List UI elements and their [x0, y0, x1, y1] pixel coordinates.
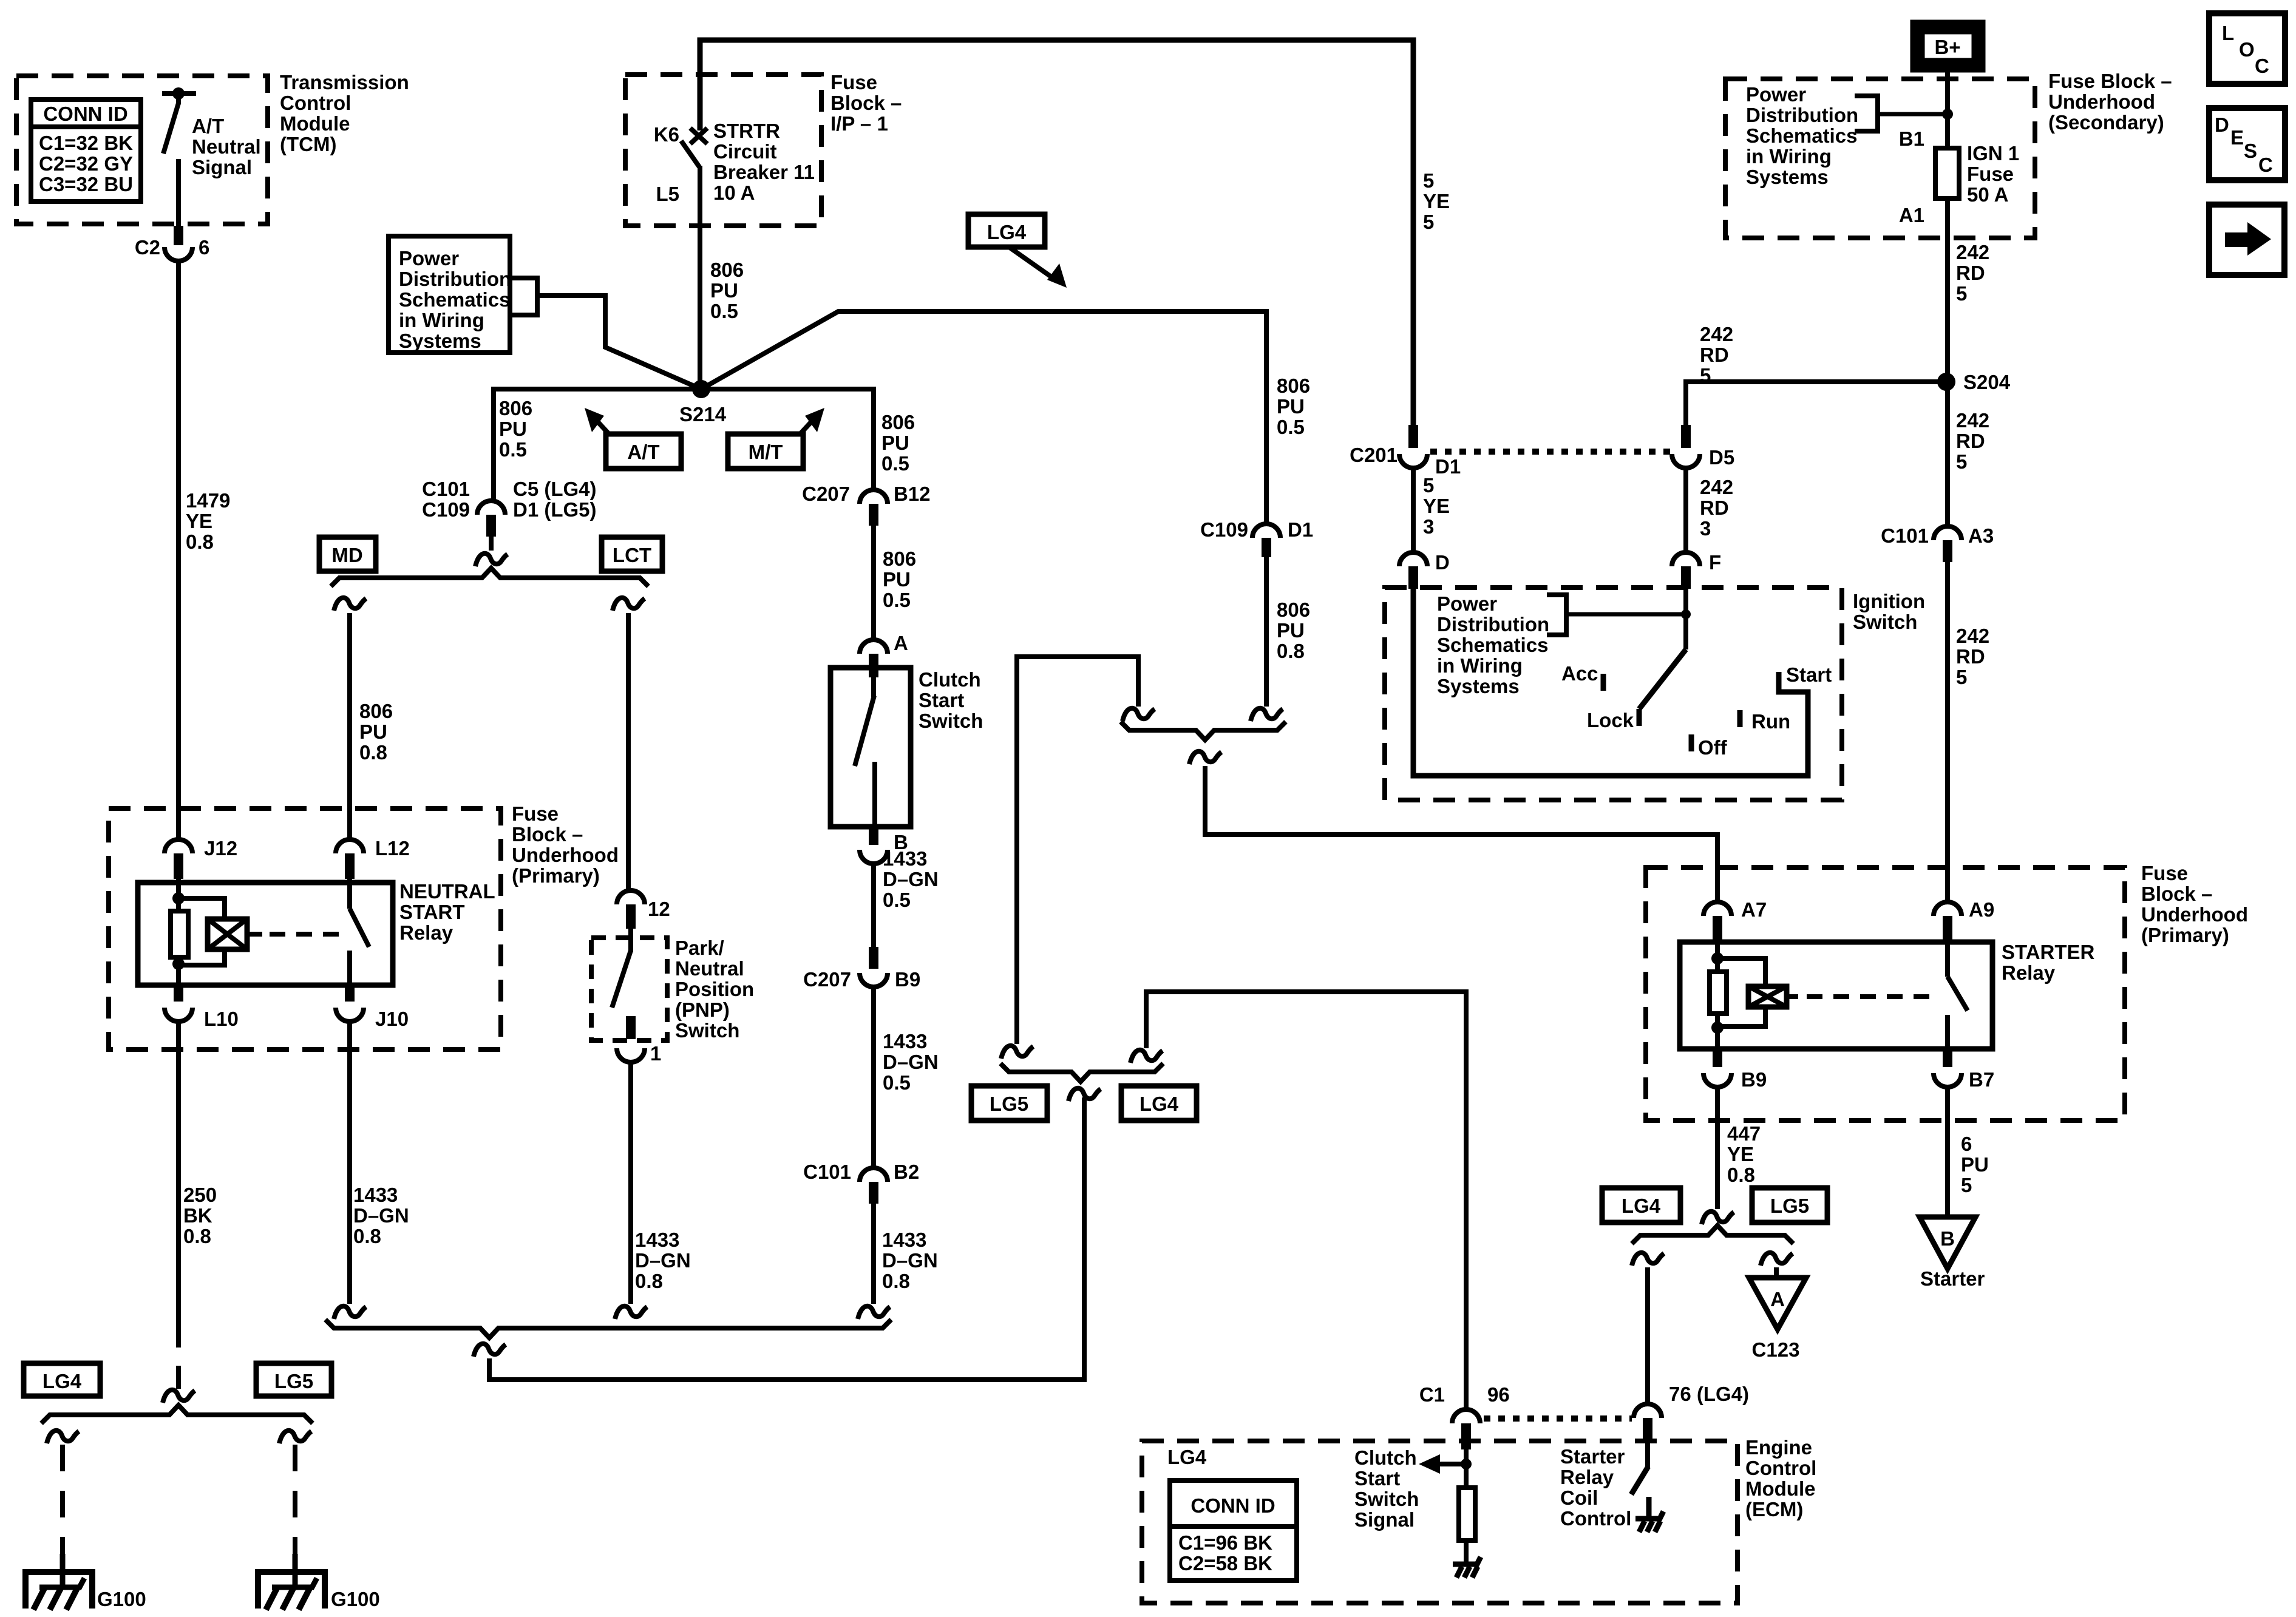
bundle brace: bottom-left grounds	[41, 1405, 313, 1423]
svg-text:5: 5	[1423, 211, 1434, 233]
svg-text:C101: C101	[803, 1161, 851, 1183]
svg-text:806: 806	[359, 700, 393, 722]
wire: S214 left branch to C101/C109	[494, 389, 701, 501]
wire: 250 BK 0.8 from L10 down	[176, 1022, 181, 1322]
svg-text:Off: Off	[1698, 736, 1728, 759]
svg-text:C207: C207	[803, 968, 851, 991]
svg-text:(TCM): (TCM)	[280, 133, 336, 155]
svg-text:A3: A3	[1968, 524, 1994, 547]
svg-text:Power: Power	[1437, 592, 1497, 615]
svg-text:Starter: Starter	[1560, 1445, 1625, 1468]
relay box: STARTER Relay	[1680, 942, 1992, 1049]
svg-text:C: C	[2255, 55, 2269, 77]
wire: C109 D1 drop to brace	[1262, 538, 1271, 557]
svg-text:5: 5	[1956, 666, 1967, 688]
box: LG5 variant tag (middle)	[971, 1086, 1047, 1120]
svg-text:Start: Start	[1354, 1467, 1400, 1490]
box: A/T variant tag	[606, 434, 681, 469]
svg-text:Position: Position	[675, 978, 754, 1000]
svg-text:6: 6	[199, 236, 209, 259]
svg-text:in Wiring: in Wiring	[1746, 145, 1832, 168]
resistor: ECM clutch signal pull	[1459, 1488, 1475, 1541]
connector C2 pin 6	[165, 247, 192, 261]
connector: starter relay pin A9	[1934, 902, 1961, 916]
svg-text:0.8: 0.8	[1727, 1164, 1755, 1186]
bundle brace: bottom collector (MD/PNP/clutch)	[325, 1320, 891, 1338]
svg-text:PU: PU	[1277, 619, 1305, 642]
svg-text:C109: C109	[422, 498, 470, 521]
svg-text:Run: Run	[1751, 710, 1790, 733]
svg-text:Power: Power	[1746, 83, 1806, 106]
wire: S214 diagonal to C109 D1 feed	[701, 311, 1266, 523]
svg-text:LG4: LG4	[1167, 1446, 1207, 1468]
svg-text:(Primary): (Primary)	[2141, 924, 2229, 946]
svg-text:3: 3	[1700, 517, 1711, 540]
svg-text:242: 242	[1956, 409, 1989, 432]
wire: 447 YE 0.8 from B9	[1715, 1087, 1720, 1209]
ignition position: Off	[1689, 734, 1694, 751]
ground G100 (right)	[293, 1554, 298, 1585]
svg-text:Schematics: Schematics	[1746, 124, 1857, 147]
svg-text:250: 250	[183, 1184, 217, 1206]
svg-text:D–GN: D–GN	[635, 1249, 691, 1272]
svg-text:806: 806	[881, 411, 915, 433]
svg-text:C207: C207	[802, 483, 850, 505]
splice S204	[1937, 373, 1955, 391]
wire: bundle output to LG5/LG4 brace	[489, 1097, 1084, 1380]
wire: 242 RD 5 from S204 to C101 A3	[1945, 382, 1950, 526]
connector: ignition switch pin D	[1399, 552, 1427, 566]
wire: 1433 D-GN 0.8 from B2 down	[871, 1204, 876, 1304]
svg-text:Control: Control	[280, 92, 351, 114]
wire: 1479 YE 0.8 from C2 to J12	[176, 261, 181, 838]
svg-text:M/T: M/T	[749, 441, 783, 463]
svg-text:D1: D1	[1288, 518, 1313, 541]
svg-text:1433: 1433	[882, 1229, 926, 1251]
svg-text:C: C	[2258, 154, 2273, 176]
svg-text:C2: C2	[135, 236, 160, 259]
svg-text:76 (LG4): 76 (LG4)	[1669, 1383, 1749, 1405]
wire: LG5 ground branch	[279, 1431, 311, 1443]
svg-text:D–GN: D–GN	[883, 868, 939, 890]
svg-text:806: 806	[499, 397, 532, 419]
box: DESC legend	[2209, 108, 2285, 180]
svg-text:Engine: Engine	[1745, 1436, 1812, 1459]
svg-text:D–GN: D–GN	[882, 1249, 938, 1272]
svg-text:YE: YE	[1423, 495, 1450, 517]
svg-text:Acc: Acc	[1561, 662, 1598, 685]
off-page connector A / C123	[1749, 1278, 1806, 1329]
arrow: LG4 tag pointer	[1009, 247, 1052, 277]
svg-text:C1=96 BK: C1=96 BK	[1178, 1531, 1272, 1554]
svg-text:LG5: LG5	[990, 1093, 1028, 1115]
dashed box: Transmission Control Module (TCM)	[16, 76, 268, 224]
connector: starter relay pin B7	[1943, 1049, 1952, 1067]
box: Clutch Start Switch	[830, 668, 911, 827]
svg-text:Systems: Systems	[1746, 166, 1829, 188]
wire: bracket to S214 splice	[537, 296, 701, 389]
svg-text:Power: Power	[399, 247, 459, 269]
svg-text:Signal: Signal	[192, 156, 252, 178]
svg-text:A/T: A/T	[627, 441, 659, 463]
svg-text:Relay: Relay	[1560, 1466, 1614, 1488]
svg-text:S: S	[2244, 140, 2257, 162]
svg-text:Start: Start	[1786, 663, 1832, 686]
wire: 1433 D-GN 0.8 from PNP pin 1 down	[628, 1062, 633, 1304]
wire: 6 PU 5 from B7 to starter	[1945, 1087, 1950, 1217]
svg-text:C2=58 BK: C2=58 BK	[1178, 1552, 1272, 1575]
svg-text:I/P – 1: I/P – 1	[830, 112, 888, 135]
svg-text:Fuse Block –: Fuse Block –	[2048, 70, 2172, 92]
box: LG4 variant tag (bottom left)	[24, 1363, 100, 1396]
svg-text:D1 (LG5): D1 (LG5)	[513, 498, 597, 521]
svg-text:Park/: Park/	[675, 937, 724, 959]
svg-text:Fuse: Fuse	[1967, 163, 2014, 185]
svg-text:J10: J10	[375, 1008, 409, 1030]
svg-text:STARTER: STARTER	[2002, 941, 2095, 963]
connector: clutch switch pin A	[860, 640, 888, 654]
svg-text:PU: PU	[883, 568, 911, 591]
svg-text:YE: YE	[1727, 1143, 1754, 1165]
svg-text:C101: C101	[1881, 524, 1929, 547]
svg-text:Block –: Block –	[512, 823, 583, 846]
bundle brace: B9 split to LG4/LG5	[1632, 1225, 1793, 1244]
box: LG4 variant tag (top)	[968, 214, 1045, 247]
svg-text:L10: L10	[204, 1008, 239, 1030]
svg-text:B1: B1	[1899, 127, 1924, 150]
svg-text:STRTR: STRTR	[713, 120, 780, 142]
svg-text:G100: G100	[97, 1588, 146, 1610]
svg-text:Signal: Signal	[1354, 1508, 1415, 1531]
connector J10	[345, 985, 355, 1002]
dotted tie: C201 to D5	[1430, 449, 1671, 455]
svg-text:0.8: 0.8	[186, 531, 214, 553]
svg-text:C2=32 GY: C2=32 GY	[39, 152, 133, 175]
svg-text:C1=32 BK: C1=32 BK	[39, 132, 133, 154]
svg-text:RD: RD	[1956, 645, 1985, 668]
svg-text:(ECM): (ECM)	[1745, 1498, 1803, 1520]
dashed box: Engine Control Module (ECM)	[1142, 1441, 1737, 1603]
svg-text:(Primary): (Primary)	[512, 864, 600, 887]
svg-text:Distribution: Distribution	[1746, 104, 1858, 126]
svg-text:Systems: Systems	[399, 330, 481, 352]
svg-text:Switch: Switch	[919, 710, 983, 732]
svg-text:Relay: Relay	[2002, 961, 2056, 984]
svg-text:D: D	[1435, 551, 1450, 574]
svg-text:L: L	[2222, 22, 2234, 44]
dashed box: Park/Neutral Position (PNP) Switch	[591, 938, 667, 1040]
wire: B+ to IGN1 fuse	[1945, 70, 1950, 148]
svg-text:Circuit: Circuit	[713, 140, 777, 163]
off-page connector B / Starter	[1920, 1217, 1975, 1269]
wire: LG4 ground branch	[47, 1431, 79, 1443]
svg-text:B9: B9	[1741, 1068, 1767, 1091]
svg-text:Transmission: Transmission	[280, 71, 409, 93]
svg-text:Start: Start	[919, 689, 964, 711]
relay contact switch (right side)	[347, 879, 352, 909]
svg-text:A1: A1	[1899, 204, 1924, 226]
svg-text:1433: 1433	[353, 1184, 398, 1206]
relay coil branch (left)	[176, 879, 181, 911]
svg-text:242: 242	[1956, 625, 1989, 647]
svg-text:242: 242	[1956, 241, 1989, 263]
svg-text:10 A: 10 A	[713, 181, 755, 204]
bracket: ignition power distribution	[1547, 595, 1566, 635]
box: Power Distribution Schematics in Wiring Systems (top left)	[389, 236, 510, 353]
wire: LG4 path up to ECM C1 horizontal	[1130, 1050, 1163, 1063]
svg-text:806: 806	[1277, 375, 1310, 397]
box: LG4 variant tag (middle)	[1121, 1086, 1197, 1120]
wire: 242 RD 5 from A3 to starter relay A9	[1945, 562, 1950, 901]
relay box: NEUTRAL START Relay	[138, 883, 393, 985]
svg-text:0.5: 0.5	[1277, 416, 1305, 438]
svg-text:LG4: LG4	[987, 221, 1027, 243]
wire: 5 YE 3 from C201 to ignition D	[1411, 468, 1416, 552]
svg-text:806: 806	[883, 547, 916, 570]
bundle brace: starter relay coil feed (A7)	[1121, 722, 1286, 740]
svg-text:1: 1	[650, 1042, 661, 1065]
svg-text:B: B	[1940, 1227, 1955, 1250]
svg-text:F: F	[1709, 551, 1721, 574]
svg-text:LG5: LG5	[274, 1370, 313, 1392]
svg-text:Coil: Coil	[1560, 1486, 1598, 1509]
splice S214	[692, 380, 710, 398]
svg-text:C1: C1	[1419, 1383, 1445, 1406]
ignition position: Run	[1737, 710, 1743, 727]
svg-text:MD: MD	[331, 544, 362, 566]
ground G100 (left)	[60, 1554, 66, 1585]
svg-text:Underhood: Underhood	[2141, 903, 2248, 926]
svg-text:C5 (LG4): C5 (LG4)	[513, 478, 597, 500]
box: forward arrow legend	[2209, 205, 2284, 275]
svg-text:(PNP): (PNP)	[675, 998, 730, 1021]
connector C207 pin B12	[860, 490, 888, 504]
dashed box: Fuse Block - Underhood (Secondary)	[1725, 79, 2035, 238]
svg-text:PU: PU	[710, 279, 738, 302]
wire: 1433 D-GN 0.5 to C101 B2	[871, 987, 876, 1168]
svg-text:0.8: 0.8	[635, 1270, 663, 1292]
wire: S214 right branch to C207 B12	[701, 389, 874, 490]
svg-text:Control: Control	[1745, 1457, 1816, 1479]
svg-text:Neutral: Neutral	[192, 135, 261, 158]
svg-text:YE: YE	[186, 510, 212, 532]
svg-text:0.8: 0.8	[1277, 640, 1305, 662]
wire: 242 RD 5 from fuse to S204	[1945, 198, 1950, 374]
svg-text:Ignition: Ignition	[1853, 590, 1925, 612]
dashed box: Ignition Switch	[1385, 588, 1842, 800]
connector C109 pin D1	[1252, 524, 1280, 538]
bracket from power distribution box	[511, 278, 537, 315]
svg-text:L5: L5	[656, 183, 679, 205]
box: LG5 variant tag (bottom left)	[256, 1363, 331, 1396]
dotted tie: C1 to 76	[1484, 1415, 1632, 1422]
svg-text:PU: PU	[881, 432, 909, 454]
connector J12	[165, 839, 192, 853]
svg-text:S204: S204	[1963, 371, 2011, 393]
svg-text:in Wiring: in Wiring	[1437, 654, 1523, 677]
svg-text:Module: Module	[1745, 1477, 1815, 1500]
svg-text:50 A: 50 A	[1967, 183, 2008, 206]
connector C201 pin D1	[1399, 454, 1427, 468]
svg-text:Fuse: Fuse	[2141, 862, 2188, 884]
arrow: clutch start switch signal	[1433, 1462, 1466, 1466]
svg-text:Relay: Relay	[399, 921, 453, 944]
svg-text:96: 96	[1487, 1383, 1510, 1406]
svg-text:Systems: Systems	[1437, 675, 1520, 697]
svg-text:6: 6	[1961, 1133, 1972, 1155]
switch blade: PNP	[628, 929, 633, 952]
svg-text:Starter: Starter	[1920, 1267, 1985, 1290]
connector L12	[336, 839, 364, 853]
svg-text:Switch: Switch	[1354, 1488, 1419, 1510]
box: LG4 variant tag (right)	[1602, 1188, 1680, 1222]
connector 76 (LG4)	[1634, 1404, 1662, 1418]
svg-text:Switch: Switch	[1853, 611, 1917, 633]
svg-text:A: A	[894, 632, 908, 654]
svg-text:B7: B7	[1969, 1068, 1994, 1091]
ECM clutch start switch signal node	[1464, 1449, 1469, 1488]
svg-text:E: E	[2230, 126, 2244, 149]
wire: 5 YE 5 drop to C201	[1408, 425, 1418, 448]
svg-text:Block –: Block –	[830, 92, 902, 114]
box: LOC legend	[2209, 13, 2285, 84]
svg-text:806: 806	[710, 259, 744, 281]
svg-text:LG5: LG5	[1770, 1195, 1809, 1217]
svg-text:Module: Module	[280, 112, 350, 135]
resistor in starter relay	[1710, 972, 1727, 1014]
svg-text:0.8: 0.8	[183, 1225, 211, 1247]
wire: brace output to starter relay A7	[1189, 751, 1221, 764]
svg-text:0.5: 0.5	[883, 589, 911, 611]
svg-text:0.5: 0.5	[499, 438, 527, 461]
svg-text:242: 242	[1700, 323, 1733, 345]
wire: 1433 D-GN 0.5 to C207 B9	[871, 864, 876, 958]
box: MD variant tag	[319, 537, 376, 571]
wire: MD branch down to L12 (806 PU 0.8)	[334, 598, 366, 611]
svg-text:0.8: 0.8	[359, 741, 387, 764]
svg-text:1433: 1433	[883, 847, 927, 870]
svg-text:5: 5	[1423, 474, 1434, 497]
svg-text:BK: BK	[183, 1204, 212, 1227]
svg-text:LCT: LCT	[613, 544, 651, 566]
svg-text:C123: C123	[1752, 1338, 1800, 1361]
svg-text:5: 5	[1700, 364, 1711, 387]
svg-text:5: 5	[1956, 282, 1967, 305]
svg-text:LG4: LG4	[42, 1370, 82, 1392]
svg-text:A: A	[1770, 1288, 1785, 1310]
box: LCT variant tag	[602, 537, 662, 571]
svg-text:START: START	[399, 901, 465, 923]
svg-text:Lock: Lock	[1587, 709, 1634, 731]
svg-text:K6: K6	[654, 123, 679, 146]
svg-text:CONN ID: CONN ID	[43, 103, 127, 125]
connector: clutch switch pin B	[869, 827, 878, 845]
dashed box: Fuse Block - I/P - 1	[625, 75, 821, 226]
svg-text:B+: B+	[1934, 36, 1960, 58]
svg-text:0.5: 0.5	[883, 1071, 911, 1094]
wire: 242 RD 3 from D5 to ignition F	[1683, 468, 1688, 552]
svg-text:Distribution: Distribution	[1437, 613, 1549, 636]
wire: S204 branch to D5	[1686, 382, 1946, 425]
svg-text:242: 242	[1700, 476, 1733, 498]
bracket: fuse secondary power distribution	[1855, 96, 1878, 131]
svg-text:Schematics: Schematics	[399, 288, 510, 311]
svg-text:0.8: 0.8	[353, 1225, 381, 1247]
connector C207 pin B9	[869, 947, 878, 969]
svg-text:D–GN: D–GN	[883, 1051, 939, 1073]
connector: PNP switch pin 1	[617, 1048, 645, 1062]
connector: fuse block pin D5	[1672, 454, 1700, 468]
wire: 806 PU 0.5 to clutch start switch	[871, 526, 876, 640]
svg-text:3: 3	[1423, 515, 1434, 538]
svg-text:D–GN: D–GN	[353, 1204, 409, 1227]
connector C1 pin 96	[1452, 1409, 1480, 1423]
box: M/T variant tag	[728, 434, 803, 469]
svg-text:0.5: 0.5	[881, 452, 909, 475]
svg-text:1433: 1433	[635, 1229, 679, 1251]
svg-text:A9: A9	[1969, 898, 1994, 921]
svg-text:S214: S214	[679, 403, 727, 425]
svg-text:Underhood: Underhood	[512, 844, 619, 866]
wire: LG5 branch to C123 A	[1761, 1253, 1793, 1266]
svg-text:PU: PU	[359, 720, 387, 743]
svg-text:RD: RD	[1956, 262, 1985, 284]
svg-text:RD: RD	[1956, 430, 1985, 452]
svg-text:Fuse: Fuse	[830, 71, 877, 93]
arrow: M/T branch pointer	[800, 419, 813, 435]
svg-text:PU: PU	[1961, 1153, 1989, 1176]
svg-text:5: 5	[1423, 169, 1434, 192]
svg-text:Fuse: Fuse	[512, 802, 559, 825]
wire: TCM output to connector C2	[176, 159, 181, 226]
svg-text:Block –: Block –	[2141, 883, 2212, 905]
bundle brace: MD/LCT split	[331, 568, 648, 586]
svg-text:A/T: A/T	[192, 115, 224, 137]
svg-text:PU: PU	[1277, 395, 1305, 418]
svg-text:Clutch: Clutch	[919, 668, 981, 691]
svg-text:5: 5	[1961, 1174, 1972, 1196]
wire: top feed from circuit breaker to ignition C201 branch	[700, 40, 1413, 425]
svg-text:D5: D5	[1709, 446, 1734, 469]
svg-text:Breaker 11: Breaker 11	[713, 161, 815, 183]
svg-text:D1: D1	[1435, 455, 1461, 478]
svg-text:D: D	[2215, 114, 2229, 136]
svg-text:CONN ID: CONN ID	[1190, 1494, 1275, 1517]
svg-text:806: 806	[1277, 598, 1310, 621]
svg-text:Distribution: Distribution	[399, 268, 511, 290]
svg-text:A7: A7	[1741, 898, 1767, 921]
svg-text:(Secondary): (Secondary)	[2048, 111, 2164, 134]
svg-text:J12: J12	[204, 837, 237, 859]
connector: ignition switch pin F	[1672, 552, 1700, 566]
ground: ECM internal (clutch signal)	[1453, 1557, 1481, 1564]
coil box with X (neutral start relay)	[208, 919, 247, 949]
dashed linkage to starter relay contact	[1807, 994, 1937, 999]
connector: starter relay pin B9	[1713, 1049, 1722, 1067]
svg-text:C201: C201	[1350, 444, 1398, 466]
svg-text:C101: C101	[422, 478, 470, 500]
svg-text:0.8: 0.8	[882, 1270, 910, 1292]
ignition feed path D to Start contact	[1413, 589, 1808, 776]
starter relay coil branch	[1715, 941, 1720, 972]
svg-text:RD: RD	[1700, 344, 1729, 366]
table: ECM CONN ID	[1170, 1480, 1297, 1581]
svg-text:NEUTRAL: NEUTRAL	[399, 880, 495, 903]
box: LG5 variant tag (right)	[1752, 1188, 1827, 1222]
bundle brace: LG5/LG4 split (middle)	[1000, 1063, 1163, 1082]
wire: 1433 D-GN 0.8 from J10 down	[347, 1022, 352, 1304]
svg-text:Switch: Switch	[675, 1019, 739, 1042]
